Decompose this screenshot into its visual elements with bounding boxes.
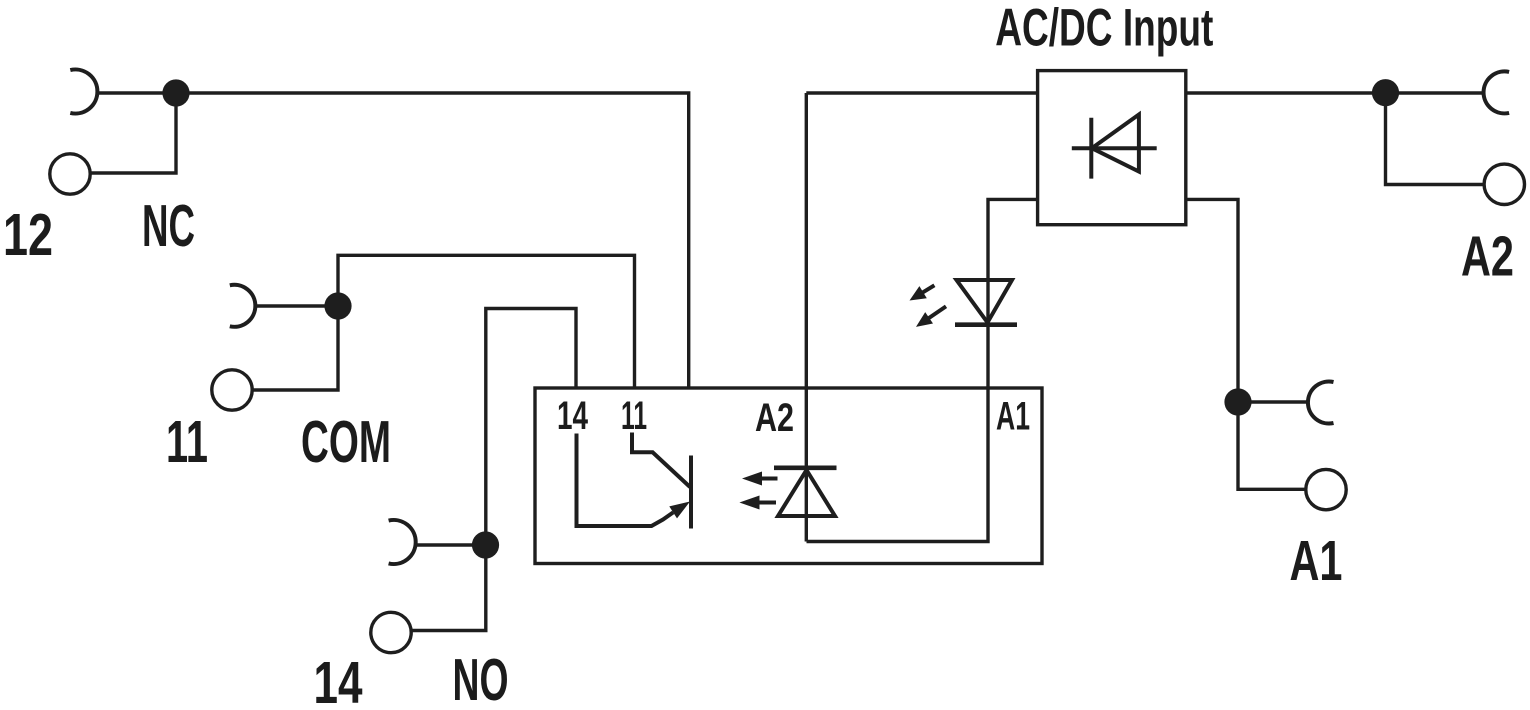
wire A1 junction to arc [1238,400,1308,403]
svg-text:14: 14 [314,650,363,710]
LED emission arrow 1 head [910,286,927,300]
node junction NC [162,79,189,106]
photodiode arrow 2 head [739,496,759,510]
wire 11 stub [253,306,338,390]
svg-text:A2: A2 [755,396,794,440]
LED emission arrow 2 head [916,312,933,327]
photodiode arrow 1 [758,477,778,481]
AC/DC input box outline [1038,71,1186,225]
svg-text:NO: NO [453,647,509,710]
contact moving arrow head [669,502,690,519]
bridge diode cathode bar [1089,118,1093,179]
wire A2 stub [1386,93,1484,185]
wire 14 stub [412,545,486,631]
photodiode D2 triangle [778,470,835,516]
wire A1 stub [1238,402,1306,489]
node junction A2 [1372,79,1399,106]
bridge diode triangle [1092,115,1139,172]
wire photodiode to A1 pin [807,199,1038,541]
svg-text:NC: NC [142,193,195,259]
node junction COM [324,292,351,319]
contact pole bar [689,456,693,529]
svg-text:A1: A1 [996,395,1030,439]
node junction NO [472,531,499,558]
terminal socket arc A1 [1308,382,1334,424]
terminal circle A2 [1484,164,1524,204]
terminal circle 12 [50,154,90,194]
svg-text:14: 14 [557,394,589,438]
terminal circle 11 [212,370,252,410]
svg-text:11: 11 [166,409,208,475]
bridge diode wire [1072,146,1157,150]
wire A2 top to input box [806,91,1037,94]
LED D1 triangle [957,280,1013,323]
terminal circle A1 [1306,469,1346,509]
changeover contact pin 11 path [632,433,690,488]
wire input box to A1 terminal [1186,199,1238,402]
photodiode D2 cathode bar [774,466,837,471]
svg-text:A2: A2 [1461,225,1514,289]
node junction A1 [1224,388,1251,415]
LED emission arrow 1 [922,285,935,293]
wire 12 stub [91,93,176,173]
svg-text:AC/DC Input: AC/DC Input [995,0,1213,58]
wire input box to A2 terminal [1186,91,1484,94]
terminal socket arc 14 [389,520,416,564]
wire NO rail [414,309,576,546]
changeover contact pin 14 path [577,434,674,527]
terminal circle 14 [371,612,411,652]
photodiode arrow 2 [756,501,776,505]
LED emission arrow 2 [928,306,946,318]
wire NC top rail [96,93,689,388]
photodiode arrow 1 head [742,472,762,486]
svg-text:COM: COM [301,409,391,475]
svg-text:A1: A1 [1290,529,1343,593]
wire COM rail [255,255,635,388]
LED D1 cathode bar [955,322,1017,327]
wire A2 pin line [805,93,808,542]
terminal socket arc 12 [70,70,97,114]
terminal socket arc 11 [230,285,256,327]
relay output box outline [535,388,1042,564]
svg-text:12: 12 [3,202,53,268]
terminal socket arc A2 [1484,71,1510,113]
svg-text:11: 11 [621,394,647,438]
